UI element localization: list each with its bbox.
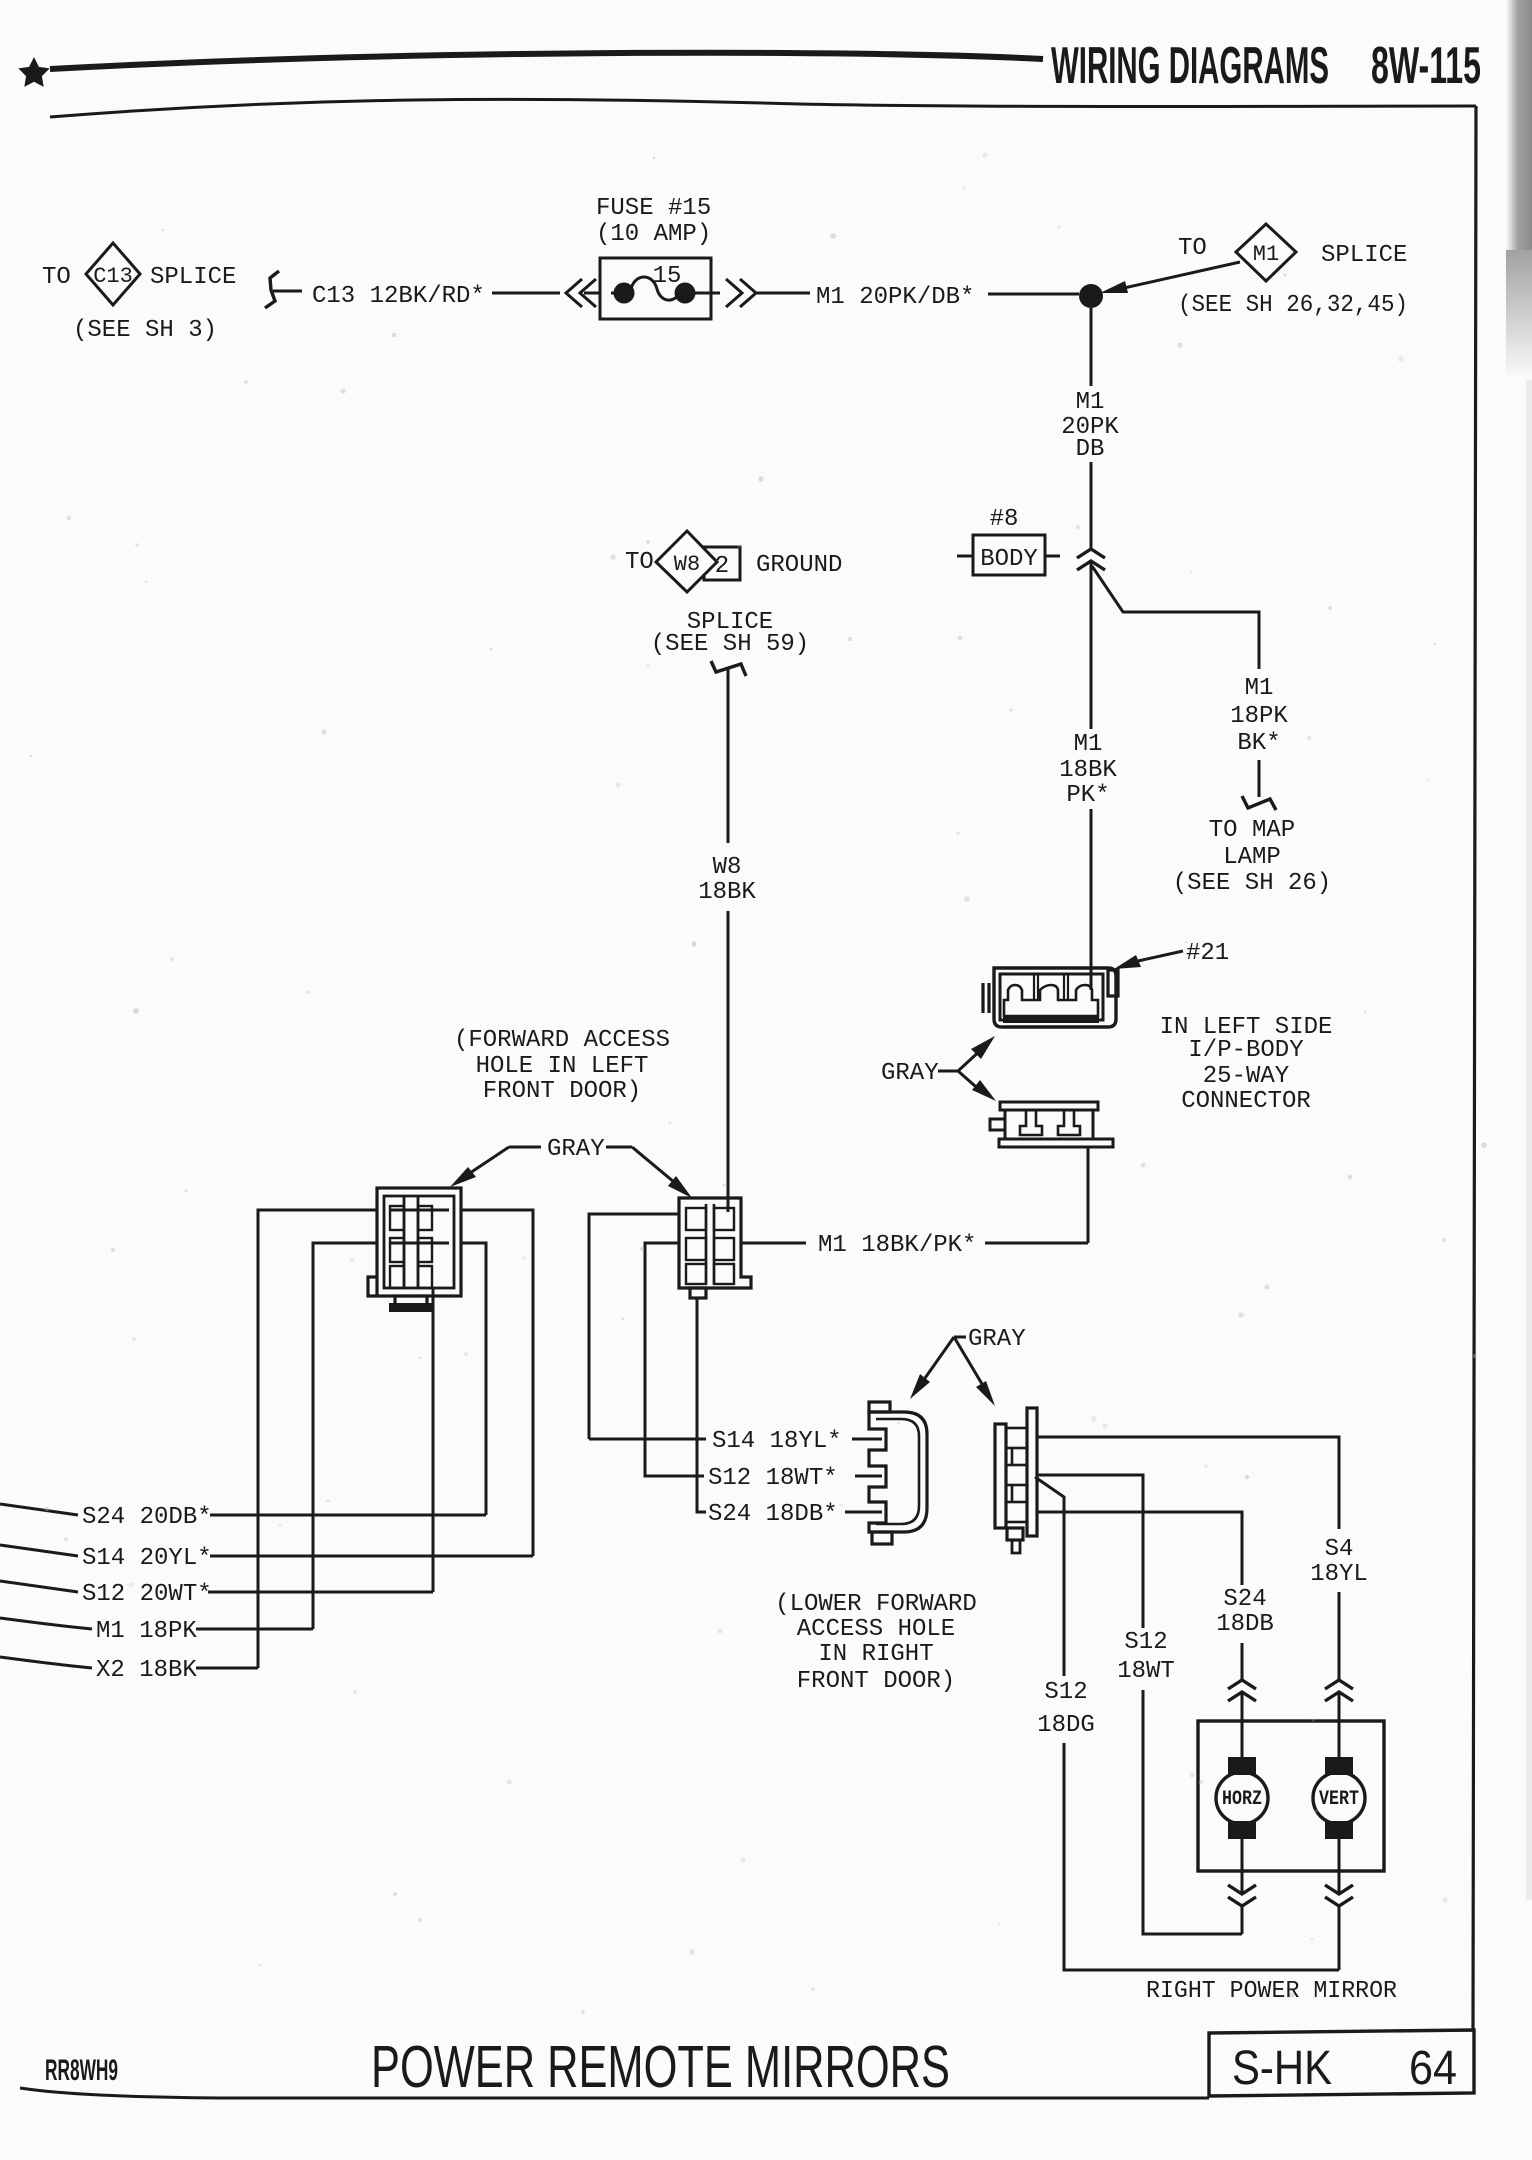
svg-text:18PK: 18PK [1230,703,1288,730]
svg-text:S24 20DB*: S24 20DB* [82,1504,212,1531]
svg-text:15: 15 [653,263,682,290]
svg-text:FUSE #15: FUSE #15 [596,195,711,222]
svg-text:2: 2 [715,553,729,580]
svg-text:SPLICE: SPLICE [1321,242,1407,269]
svg-text:TO: TO [1178,235,1207,262]
svg-text:GRAY: GRAY [547,1136,605,1163]
svg-text:S24: S24 [1223,1586,1266,1613]
svg-text:S12 20WT*: S12 20WT* [82,1581,212,1608]
svg-text:25-WAY: 25-WAY [1203,1063,1289,1090]
svg-text:BODY: BODY [980,546,1038,573]
svg-text:CONNECTOR: CONNECTOR [1181,1088,1311,1115]
svg-text:W8: W8 [713,854,742,881]
svg-text:8W-115: 8W-115 [1371,37,1481,95]
svg-text:TO: TO [625,549,654,576]
svg-text:FRONT DOOR): FRONT DOOR) [483,1078,641,1105]
svg-text:S24 18DB*: S24 18DB* [708,1501,838,1528]
svg-text:DB: DB [1076,436,1105,463]
svg-text:S14 20YL*: S14 20YL* [82,1545,212,1572]
svg-text:HORZ: HORZ [1222,1788,1262,1811]
svg-text:PK*: PK* [1066,782,1109,809]
svg-text:S14 18YL*: S14 18YL* [712,1428,842,1455]
svg-text:#21: #21 [1186,940,1229,967]
svg-text:GROUND: GROUND [756,552,842,579]
svg-text:18DG: 18DG [1037,1712,1095,1739]
svg-text:(LOWER FORWARD: (LOWER FORWARD [775,1591,977,1618]
svg-text:C13 12BK/RD*: C13 12BK/RD* [312,283,485,310]
svg-text:I/P-BODY: I/P-BODY [1188,1037,1303,1064]
svg-text:M1: M1 [1253,242,1279,267]
svg-text:LAMP: LAMP [1223,844,1281,871]
svg-text:(SEE SH 26,32,45): (SEE SH 26,32,45) [1178,292,1408,319]
svg-text:18BK: 18BK [1059,757,1117,784]
svg-text:TO MAP: TO MAP [1209,817,1295,844]
svg-text:C13: C13 [93,264,133,289]
svg-text:BK*: BK* [1237,730,1280,757]
svg-text:X2 18BK: X2 18BK [96,1657,197,1684]
svg-text:18BK: 18BK [698,879,756,906]
svg-text:(SEE SH 59): (SEE SH 59) [651,631,809,658]
svg-text:S-HK: S-HK [1232,2042,1332,2095]
svg-text:WIRING DIAGRAMS: WIRING DIAGRAMS [1051,37,1329,95]
svg-text:(10 AMP): (10 AMP) [596,221,711,248]
svg-text:TO: TO [42,264,71,291]
svg-text:GRAY: GRAY [881,1060,939,1087]
svg-text:FRONT DOOR): FRONT DOOR) [797,1668,955,1695]
svg-text:ACCESS HOLE: ACCESS HOLE [797,1616,955,1643]
svg-text:M1: M1 [1074,731,1103,758]
svg-text:18DB: 18DB [1216,1611,1274,1638]
svg-text:M1: M1 [1076,389,1105,416]
svg-text:M1 20PK/DB*: M1 20PK/DB* [816,284,974,311]
svg-text:18YL: 18YL [1310,1561,1368,1588]
svg-text:M1 18PK: M1 18PK [96,1618,197,1645]
svg-text:IN RIGHT: IN RIGHT [818,1641,933,1668]
svg-text:#8: #8 [990,506,1019,533]
svg-text:POWER REMOTE MIRRORS: POWER REMOTE MIRRORS [371,2034,950,2100]
svg-text:SPLICE: SPLICE [150,264,236,291]
svg-text:(SEE SH 26): (SEE SH 26) [1173,870,1331,897]
svg-text:18WT: 18WT [1117,1658,1175,1685]
svg-text:S4: S4 [1325,1536,1354,1563]
svg-text:(SEE SH 3): (SEE SH 3) [73,317,217,344]
svg-text:RIGHT POWER MIRROR: RIGHT POWER MIRROR [1146,1978,1397,2005]
svg-text:M1 18BK/PK*: M1 18BK/PK* [818,1232,976,1259]
svg-text:S12 18WT*: S12 18WT* [708,1465,838,1492]
svg-text:S12: S12 [1044,1679,1087,1706]
svg-text:VERT: VERT [1319,1788,1359,1811]
svg-text:(FORWARD ACCESS: (FORWARD ACCESS [454,1027,670,1054]
svg-text:HOLE IN LEFT: HOLE IN LEFT [476,1053,649,1080]
svg-text:S12: S12 [1124,1629,1167,1656]
svg-text:GRAY: GRAY [968,1326,1026,1353]
svg-text:RR8WH9: RR8WH9 [45,2054,118,2087]
svg-text:W8: W8 [674,552,700,577]
svg-text:M1: M1 [1245,675,1274,702]
svg-text:64: 64 [1409,2042,1457,2095]
